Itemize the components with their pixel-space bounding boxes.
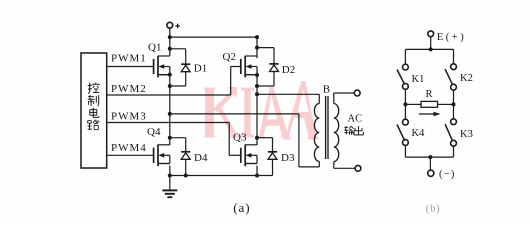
svg-text:K2: K2 — [460, 73, 473, 84]
svg-text:PWM3: PWM3 — [111, 111, 147, 123]
svg-text:D3: D3 — [281, 152, 295, 164]
svg-text:(−): (−) — [439, 169, 456, 180]
svg-text:D1: D1 — [194, 63, 207, 75]
svg-text:R: R — [426, 89, 433, 100]
svg-text:PWM2: PWM2 — [111, 83, 147, 95]
svg-text:B: B — [323, 83, 330, 95]
svg-text:K4: K4 — [412, 128, 426, 139]
svg-text:Q1: Q1 — [148, 41, 161, 53]
svg-text:AC: AC — [348, 113, 363, 124]
svg-text:Q2: Q2 — [223, 51, 236, 63]
svg-text:PWM1: PWM1 — [111, 52, 147, 64]
svg-text:PWM4: PWM4 — [111, 142, 147, 154]
svg-text:D2: D2 — [282, 64, 295, 76]
svg-text:K3: K3 — [460, 129, 473, 140]
svg-text:Q3: Q3 — [233, 132, 247, 144]
svg-text:E(+): E(+) — [437, 32, 466, 43]
svg-text:K1: K1 — [412, 74, 425, 85]
svg-text:(a): (a) — [233, 200, 250, 215]
svg-text:(b): (b) — [426, 204, 441, 215]
svg-text:D4: D4 — [194, 152, 208, 164]
svg-text:Q4: Q4 — [147, 126, 161, 138]
